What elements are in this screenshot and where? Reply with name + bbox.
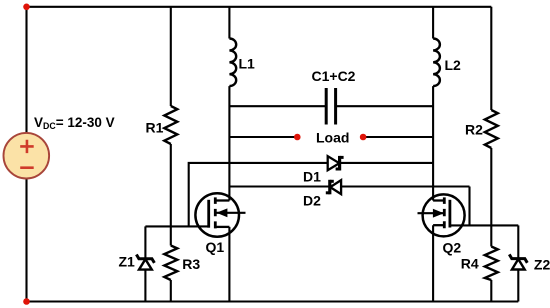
svg-text:L1: L1 [239, 55, 256, 71]
wire Z1 top [144, 226, 146, 258]
wire D2 to Q2 gate [341, 187, 469, 226]
wire R2 branch top [490, 7, 492, 110]
resistor R3 [164, 246, 177, 281]
svg-text:Q2: Q2 [443, 239, 462, 255]
wire R4 bottom [490, 280, 492, 302]
wire L2 branch top [432, 7, 434, 39]
wire Q2 gate [450, 224, 518, 226]
inductor L2 [433, 39, 440, 87]
transistor Q1 [195, 193, 245, 237]
wire top rail [27, 6, 492, 8]
wire D2 from Q1 drain [229, 185, 329, 187]
wire Q1 gate [145, 225, 208, 227]
diode D1 [328, 156, 340, 170]
wire R3 bottom [170, 280, 172, 302]
capacitor C1+C2 [326, 88, 335, 125]
wire R1 branch top [170, 7, 172, 106]
wire tank left to C1 [229, 105, 326, 107]
voltage source VDC [4, 133, 50, 179]
wire Q1 source [228, 227, 230, 302]
wire C2 to tank right [336, 105, 434, 107]
diode D2 [328, 180, 331, 195]
node bottom-left [23, 298, 30, 305]
wire Z2 top [517, 225, 519, 258]
svg-text:Z1: Z1 [119, 254, 136, 270]
svg-text:Q1: Q1 [206, 239, 225, 255]
wire load left [229, 136, 297, 138]
wire bottom rail [27, 300, 519, 302]
svg-text:C1+C2: C1+C2 [312, 68, 356, 84]
wire Q2 source [432, 225, 434, 301]
svg-text:R1: R1 [146, 119, 164, 135]
svg-text:Z2: Z2 [534, 257, 550, 273]
wire R1 to R3 [170, 144, 172, 246]
wire R2 to R4 [490, 148, 492, 247]
wire Z1 bottom [144, 270, 146, 302]
zener Z1 [136, 255, 154, 263]
svg-text:R3: R3 [182, 256, 200, 272]
wire left rail [25, 7, 27, 302]
svg-text:R2: R2 [465, 121, 483, 137]
node top-left [23, 4, 30, 11]
wire D1 to Q2 drain [340, 162, 434, 164]
svg-text:Load: Load [316, 130, 349, 146]
svg-text:R4: R4 [461, 256, 479, 272]
svg-text:D2: D2 [303, 193, 321, 209]
node load right terminal [360, 134, 367, 141]
svg-text:L2: L2 [445, 57, 462, 73]
resistor R1 [164, 106, 177, 144]
wire load right [363, 136, 433, 138]
node load left terminal [294, 134, 301, 141]
wire L1 branch top [228, 7, 230, 39]
wire Z2 bottom [517, 270, 519, 302]
wire D1 from Q1 gate [189, 163, 328, 227]
resistor R4 [485, 247, 498, 281]
wire L1 to Q1 drain [228, 86, 230, 200]
transistor Q2 [418, 194, 465, 236]
svg-text:D1: D1 [303, 168, 321, 184]
inductor L1 [229, 39, 236, 87]
wire L2 to Q2 drain [432, 86, 434, 200]
zener Z2 [509, 254, 527, 262]
resistor R2 [485, 110, 498, 148]
